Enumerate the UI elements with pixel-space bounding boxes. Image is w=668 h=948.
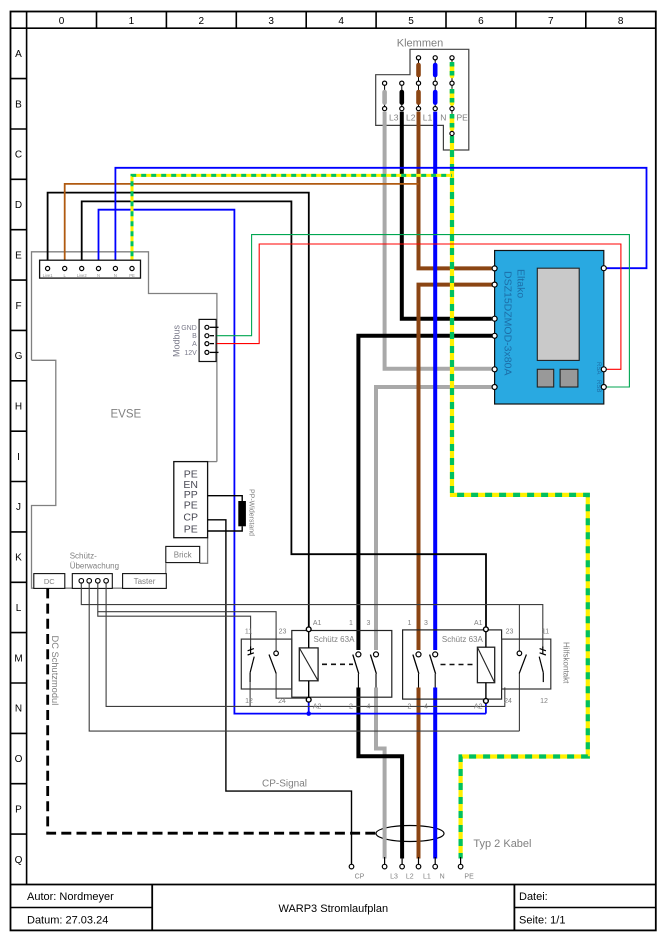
svg-text:Schütz-: Schütz- xyxy=(70,552,97,561)
Klemmen terminal bars L3 xyxy=(382,92,387,103)
Modbus RS485 A wire (red) xyxy=(210,244,621,369)
EVSE box outline xyxy=(32,252,217,588)
monitoring wire aux1 24 to A2 xyxy=(276,674,306,699)
svg-text:3: 3 xyxy=(367,620,371,627)
EVSE top connector xyxy=(40,260,141,278)
svg-text:M: M xyxy=(14,653,22,664)
svg-text:EVSE: EVSE xyxy=(111,408,142,420)
wire L3 meter output to contactor 1 pole B xyxy=(376,387,495,650)
svg-text:PE: PE xyxy=(129,273,135,278)
svg-text:N: N xyxy=(15,704,22,715)
svg-text:L2: L2 xyxy=(406,113,416,123)
svg-text:1: 1 xyxy=(129,16,135,27)
wire N from Klemmen through contactor 2 pole B xyxy=(433,112,437,650)
contactor 1 coil xyxy=(299,648,318,681)
Klemmen terminal bars PE xyxy=(450,64,455,129)
svg-text:11: 11 xyxy=(245,629,252,636)
svg-text:A: A xyxy=(192,341,197,348)
Klemmen wire labels xyxy=(389,113,468,123)
svg-text:Seite: 1/1: Seite: 1/1 xyxy=(519,915,565,927)
wire L1 contactor output to terminal xyxy=(417,688,421,859)
svg-text:B: B xyxy=(192,333,197,340)
svg-text:2: 2 xyxy=(349,703,353,710)
svg-text:Brick: Brick xyxy=(174,551,193,560)
svg-text:4: 4 xyxy=(338,16,344,27)
monitoring wire pin4 lower run xyxy=(106,583,505,706)
contactor 1 coil stubs xyxy=(308,631,310,648)
svg-text:DSZ15DZMOD-3x80A: DSZ15DZMOD-3x80A xyxy=(502,271,514,375)
svg-text:5: 5 xyxy=(408,16,414,27)
meter display xyxy=(537,268,579,360)
bottom terminal stubs xyxy=(385,857,461,864)
svg-text:L1: L1 xyxy=(423,113,433,123)
monitoring wire aux2 24 riser xyxy=(518,674,520,732)
contactor 1 A2 pin xyxy=(306,697,311,702)
column numbers xyxy=(59,16,624,27)
wire CP signal xyxy=(208,520,352,865)
svg-text:CP-Signal: CP-Signal xyxy=(262,779,307,790)
Klemmen terminal spines xyxy=(385,58,452,134)
wire L2 from Klemmen to meter input xyxy=(402,112,492,319)
svg-text:11: 11 xyxy=(542,629,549,636)
svg-text:Klemmen: Klemmen xyxy=(397,38,443,50)
svg-text:K: K xyxy=(15,553,22,564)
svg-text:E: E xyxy=(15,250,22,261)
Brick box xyxy=(166,546,200,562)
svg-text:RSA: RSA xyxy=(595,362,601,374)
wire EVSE pin6 PE xyxy=(132,175,452,266)
svg-text:Hilfskontakt: Hilfskontakt xyxy=(562,642,571,684)
Schütz-Überwachung connector xyxy=(72,574,112,589)
wire EVSE pin1 Live1 to contactor1 A1 xyxy=(48,193,309,627)
bottom terminals xyxy=(349,864,463,869)
svg-text:CP: CP xyxy=(183,512,198,524)
monitoring wire aux1 12 stub xyxy=(249,682,251,706)
svg-text:N: N xyxy=(97,273,100,278)
svg-text:PE: PE xyxy=(457,113,469,123)
monitoring wire branch to aux1 contact 23 xyxy=(98,612,251,647)
svg-text:O: O xyxy=(15,754,23,765)
svg-text:N: N xyxy=(114,273,117,278)
svg-text:1: 1 xyxy=(349,620,353,627)
wire resistor to PE xyxy=(208,526,243,531)
contactor 2 Schütz 63A box xyxy=(403,630,502,699)
contactor 2 A1 pin xyxy=(484,627,489,632)
Eltako meter body xyxy=(495,251,604,405)
svg-text:Live2: Live2 xyxy=(77,273,88,278)
svg-text:24: 24 xyxy=(278,698,286,705)
svg-text:23: 23 xyxy=(279,629,287,636)
wire A2 stub contactor1 xyxy=(308,702,310,713)
svg-text:CP: CP xyxy=(355,874,365,881)
svg-text:B: B xyxy=(15,99,22,110)
meter button 2 xyxy=(560,369,578,387)
svg-text:2: 2 xyxy=(408,703,412,710)
contactor 2 coil stubs xyxy=(485,630,487,647)
contactor 1 A1 pin xyxy=(306,627,311,632)
Taster box xyxy=(123,574,167,589)
svg-text:C: C xyxy=(15,150,22,161)
svg-text:Datum: 27.03.24: Datum: 27.03.24 xyxy=(27,915,108,927)
aux2 contact 11/12 xyxy=(539,647,546,683)
monitoring wire pin2 bottom run to aux2 12 xyxy=(89,583,519,731)
svg-text:PE: PE xyxy=(184,524,198,536)
svg-text:L3: L3 xyxy=(389,113,399,123)
DC Schutzmodul dashed wire xyxy=(48,588,376,833)
svg-text:A1: A1 xyxy=(313,620,322,627)
contactor 2 pole B contact xyxy=(430,652,438,688)
aux2 contact 23/24 xyxy=(517,651,526,674)
wire L1 from Klemmen to meter input xyxy=(419,112,492,269)
bottom terminal labels xyxy=(355,874,474,881)
wire L1 meter output through contactor 2 pole A xyxy=(419,285,495,650)
wire EVSE pin5 N to meter right side xyxy=(115,168,646,268)
wire L3 from Klemmen to meter input xyxy=(385,112,492,369)
svg-text:A2: A2 xyxy=(313,703,322,710)
wire L2 meter output to contactor 1 pole A xyxy=(358,336,494,650)
svg-text:I: I xyxy=(17,452,20,463)
svg-text:PE: PE xyxy=(184,500,198,512)
aux1 contact 11/12 xyxy=(248,647,255,683)
aux contact block 2 Hilfskontakt xyxy=(502,639,551,689)
wire N contactor output to terminal xyxy=(433,688,437,859)
PE/EN/PP/PE/CP/PE connector xyxy=(174,462,208,538)
Modbus RS485 B wire (green) xyxy=(210,235,630,387)
svg-text:12V: 12V xyxy=(184,350,197,357)
resistor PP-Widerstand xyxy=(238,501,246,526)
wire PP to resistor xyxy=(208,496,243,501)
Klemmen terminal bars N xyxy=(433,65,438,103)
svg-text:Schütz 63A: Schütz 63A xyxy=(442,635,484,644)
Klemmen terminal bars L2 xyxy=(399,92,404,103)
contactor 2 pin labels xyxy=(408,620,483,710)
svg-text:2: 2 xyxy=(199,16,205,27)
svg-text:A1: A1 xyxy=(474,620,483,627)
aux1 contact 23/24 xyxy=(269,651,278,674)
junction dot A2 contactor1 xyxy=(306,711,311,716)
svg-text:N: N xyxy=(440,113,446,123)
svg-text:1: 1 xyxy=(408,620,412,627)
svg-text:F: F xyxy=(15,301,21,312)
svg-text:3: 3 xyxy=(424,620,428,627)
Modbus pin stubs xyxy=(210,327,219,352)
svg-text:WARP3 Stromlaufplan: WARP3 Stromlaufplan xyxy=(278,903,388,915)
wire EVSE pin3 Live2 to contactor2 A1 xyxy=(82,201,486,626)
Klemmen terminal block outline xyxy=(376,38,469,151)
Typ 2 cable ellipse xyxy=(376,826,444,842)
contactor 2 pole A contact xyxy=(413,652,421,688)
svg-text:6: 6 xyxy=(478,16,484,27)
meter button 1 xyxy=(537,369,553,387)
svg-text:L1: L1 xyxy=(423,874,431,881)
contactor 2 coil xyxy=(477,647,494,683)
svg-text:0: 0 xyxy=(59,16,65,27)
svg-text:Typ 2 Kabel: Typ 2 Kabel xyxy=(473,838,531,850)
svg-text:23: 23 xyxy=(506,629,514,636)
svg-text:PP-Widerstand: PP-Widerstand xyxy=(248,489,255,536)
wire L3 contactor output to terminal xyxy=(376,688,385,859)
svg-text:Schütz 63A: Schütz 63A xyxy=(314,635,356,644)
svg-text:DC Schutzmodul: DC Schutzmodul xyxy=(50,636,60,706)
svg-text:GND: GND xyxy=(181,325,197,332)
DC box xyxy=(34,574,65,589)
svg-text:3: 3 xyxy=(268,16,274,27)
svg-text:Modbus: Modbus xyxy=(172,324,182,357)
svg-text:24: 24 xyxy=(504,698,512,705)
aux contact block 1 xyxy=(241,639,291,689)
wire L2 contactor output to terminal xyxy=(358,688,402,859)
contactor 2 mechanical link dashes xyxy=(441,664,476,666)
svg-text:4: 4 xyxy=(367,703,371,710)
svg-text:Datei:: Datei: xyxy=(519,891,548,903)
contactor 1 Schütz 63A box xyxy=(292,631,392,698)
svg-text:Taster: Taster xyxy=(134,577,156,586)
aux1 labels xyxy=(245,629,287,706)
monitoring wire pin3 to aux2 contact 23 xyxy=(98,583,276,650)
svg-text:12: 12 xyxy=(245,698,253,705)
monitoring wire pin1 to aux2 contact 11 xyxy=(81,583,543,648)
svg-text:L: L xyxy=(16,603,22,614)
aux2 labels xyxy=(504,629,549,706)
svg-text:G: G xyxy=(15,351,23,362)
svg-text:Q: Q xyxy=(15,855,23,866)
Klemmen terminal circles xyxy=(383,56,455,136)
svg-text:12: 12 xyxy=(540,698,548,705)
svg-text:Live1: Live1 xyxy=(43,273,54,278)
svg-text:D: D xyxy=(15,200,22,211)
svg-text:L2: L2 xyxy=(406,874,414,881)
contactor 1 pin labels xyxy=(313,620,371,710)
svg-text:DC: DC xyxy=(44,577,55,586)
svg-text:Eltako: Eltako xyxy=(515,269,527,298)
contactor 1 pole A contact xyxy=(353,652,361,688)
wire PE main run xyxy=(452,136,588,859)
svg-text:8: 8 xyxy=(618,16,624,27)
contactor 1 mechanical link dashes xyxy=(322,663,353,665)
svg-text:Überwachung: Überwachung xyxy=(70,562,119,571)
meter right pins xyxy=(601,266,606,390)
svg-text:L3: L3 xyxy=(390,874,398,881)
title block xyxy=(11,885,656,931)
svg-text:PE: PE xyxy=(464,874,474,881)
svg-text:7: 7 xyxy=(548,16,554,27)
wire EVSE pin4 N to contactor coils A2 xyxy=(99,210,486,714)
meter left pins xyxy=(492,266,497,390)
EVSE connector pins xyxy=(46,266,135,270)
Klemmen terminal bars L1 xyxy=(416,65,421,103)
row letters xyxy=(14,49,22,866)
svg-text:RSB: RSB xyxy=(595,380,601,392)
wire EVSE pin2 L to L1 feed xyxy=(65,184,419,266)
svg-text:J: J xyxy=(16,502,21,513)
EVSE connector pin labels xyxy=(43,273,135,278)
svg-text:A: A xyxy=(15,49,22,60)
svg-text:Autor: Nordmeyer: Autor: Nordmeyer xyxy=(27,891,114,903)
Modbus connector xyxy=(172,319,219,361)
contactor 2 A2 pin xyxy=(484,699,489,704)
svg-text:P: P xyxy=(15,804,22,815)
wire A2 stub contactor2 xyxy=(485,703,487,713)
svg-text:N: N xyxy=(440,874,445,881)
svg-text:4: 4 xyxy=(424,703,428,710)
svg-text:H: H xyxy=(15,402,22,413)
contactor 1 pole B contact xyxy=(370,652,378,688)
svg-text:A2: A2 xyxy=(474,703,483,710)
